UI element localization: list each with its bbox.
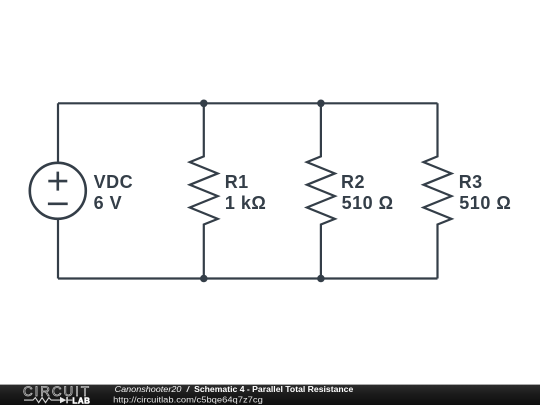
svg-text:Schematic 4 - Parallel Total R: Schematic 4 - Parallel Total Resistance: [194, 385, 354, 394]
svg-text:http://circuitlab.com/c5bqe64q: http://circuitlab.com/c5bqe64q7z7cg: [113, 396, 263, 405]
svg-text:VDC: VDC: [94, 172, 134, 192]
svg-text:510 Ω: 510 Ω: [459, 193, 511, 213]
svg-text:R3: R3: [459, 172, 483, 192]
svg-text:510 Ω: 510 Ω: [342, 193, 394, 213]
svg-text:R1: R1: [225, 172, 249, 192]
svg-text:Canonshooter20: Canonshooter20: [115, 385, 183, 394]
svg-text:6 V: 6 V: [94, 193, 123, 213]
svg-text:1 kΩ: 1 kΩ: [225, 193, 266, 213]
svg-text:R2: R2: [341, 172, 365, 192]
svg-text:LAB: LAB: [72, 396, 90, 405]
